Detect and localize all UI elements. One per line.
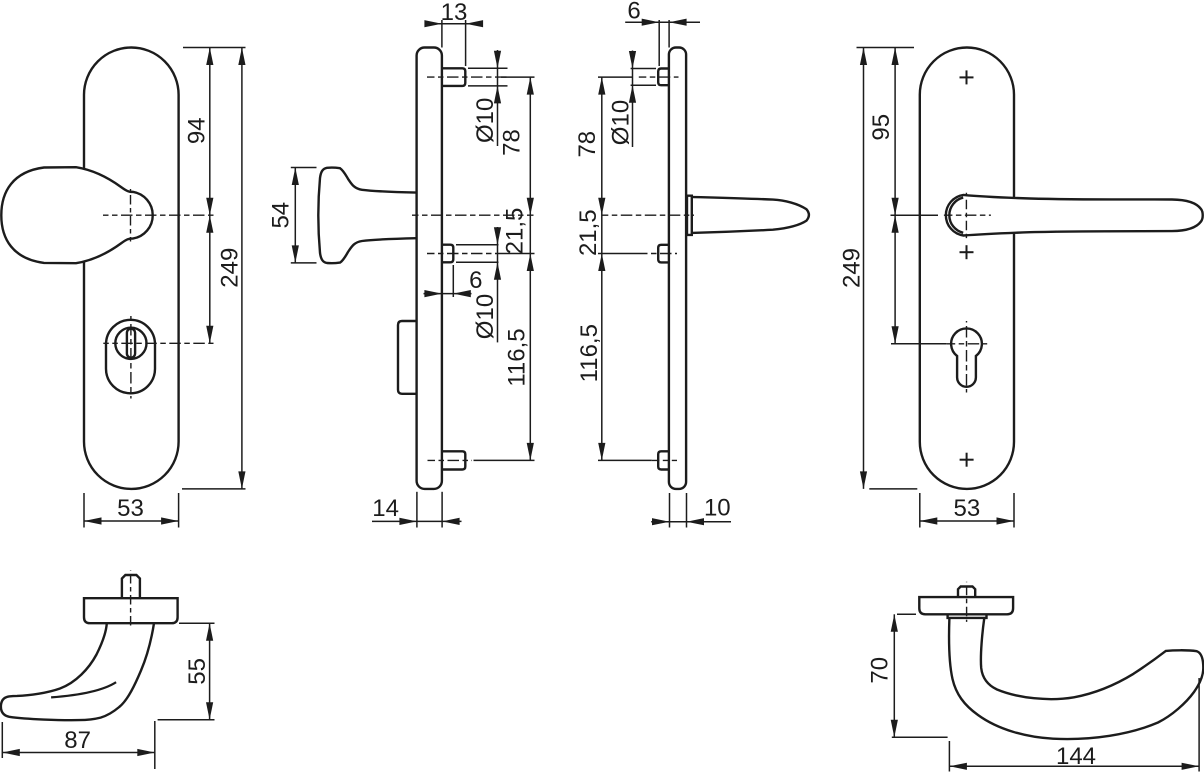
dimension 6 extension lines [442, 265, 453, 300]
middle post centerline [640, 253, 677, 255]
extension line bottom [182, 488, 246, 490]
extension line bottom [869, 488, 917, 490]
dimension 116,5 label [504, 328, 531, 386]
svg-text:10: 10 [704, 495, 731, 522]
svg-text:Ø10: Ø10 [472, 98, 499, 143]
dimension dia10 lower label [472, 294, 499, 339]
dimension 13 line [426, 23, 482, 25]
svg-text:13: 13 [441, 0, 468, 26]
extension line 78 top [501, 76, 535, 78]
svg-text:Ø10: Ø10 [472, 294, 499, 339]
dimension 10 arrows [652, 518, 704, 525]
dimension column 78 / 21,5 / 116,5 line [529, 77, 531, 460]
dimension 10 line [651, 521, 731, 523]
dimension 116,5 label [576, 324, 603, 382]
svg-text:21,5: 21,5 [575, 209, 602, 256]
svg-text:95: 95 [868, 114, 895, 141]
dimension 53 label [954, 495, 981, 522]
svg-text:116,5: 116,5 [504, 328, 531, 386]
dimension dia10 lower extension lines [456, 245, 499, 263]
top screw post 13mm [442, 68, 465, 86]
dimension 70 line [893, 614, 895, 737]
middle post extension to dim column [598, 253, 640, 255]
dimension dia10 line with underline tail [632, 51, 634, 148]
security rosette oval hole [106, 320, 155, 394]
euro profile cylinder hole [951, 328, 982, 386]
dimension 54 arrows [292, 168, 299, 263]
knob horn body [1, 623, 154, 720]
plate outline (interior side) [669, 48, 686, 489]
dimension 249 line [241, 48, 243, 489]
dimension column 78 / 21,5 / 116,5 line [601, 77, 603, 460]
dimension 70 label [867, 657, 894, 684]
cylinder core circle [115, 328, 146, 359]
svg-text:78: 78 [574, 131, 601, 158]
cylinder housing box [398, 321, 417, 394]
dimension dia10 top extension lines [468, 68, 508, 86]
dimension 14 label [372, 495, 399, 522]
svg-text:21,5: 21,5 [502, 208, 529, 255]
handle centerline horizontal [944, 214, 991, 216]
dimension 249 label [216, 248, 243, 288]
dimension knob-to-cylinder line [209, 215, 211, 343]
dimension 53 line [84, 520, 179, 522]
dimension 144 label [1056, 743, 1096, 770]
knob centerline vertical [130, 189, 132, 242]
dimension 249 line [863, 48, 865, 489]
dimension 13 extension lines [442, 20, 466, 66]
dimension dia10 top line with underline tail [497, 50, 499, 146]
dimension 70 arrows [891, 614, 898, 737]
svg-text:94: 94 [183, 117, 210, 144]
dimension 6 label [469, 267, 482, 294]
dimension 87 line [2, 752, 155, 754]
svg-text:249: 249 [839, 248, 866, 288]
dimension 55 line [209, 623, 211, 720]
dimension 53 line [920, 520, 1014, 522]
middle screw post 6mm [442, 245, 453, 263]
bottom post extension to dim column [474, 459, 535, 461]
dimension handle-to-cylinder line [894, 215, 896, 344]
dimension 95 arrows [892, 48, 899, 216]
dimension 53 label [117, 495, 144, 522]
dimension 6 line [625, 21, 700, 23]
dimension handle-to-cylinder arrows [892, 215, 899, 344]
dimension column arrows [527, 77, 534, 460]
dimension 13 label [441, 0, 468, 26]
euro hole centerline horizontal [947, 343, 988, 345]
dimension 54 extension lines [291, 168, 317, 263]
extension line handle center [891, 214, 939, 216]
extension line top [857, 47, 915, 49]
svg-text:53: 53 [954, 495, 981, 522]
knob spindle centerline [130, 570, 132, 629]
dimension 95 line [894, 48, 896, 216]
knob spindle [122, 575, 140, 598]
middle screw post [658, 245, 669, 263]
top post centerline [639, 76, 679, 78]
dimension dia10 lower arrows [494, 227, 501, 280]
dimension 87 arrows [2, 749, 155, 756]
svg-text:78: 78 [499, 129, 526, 156]
dimension 55 label [184, 658, 211, 685]
extension line cylinder center [891, 343, 947, 345]
dimension 55 arrows [206, 623, 213, 720]
dimension 94 label [183, 117, 210, 144]
plate outline (interior front) [920, 48, 1014, 489]
dimension 144 arrows [949, 763, 1199, 770]
knob (front view) [1, 167, 152, 263]
dimension dia10 top arrows [494, 51, 501, 104]
dimension 54 line [294, 168, 296, 263]
dimension 10 extension lines [670, 493, 687, 528]
extension line top [183, 47, 246, 49]
svg-text:53: 53 [117, 495, 144, 522]
dimension 87 label [64, 727, 91, 754]
dimension 78 label [499, 129, 526, 156]
svg-text:70: 70 [867, 657, 894, 684]
bottom screw post [658, 451, 669, 469]
euro hole centerline vertical [966, 321, 968, 393]
dimension dia10 extension lines [631, 69, 656, 86]
dimension dia10 lower line with underline tail [497, 227, 499, 342]
cylinder centerline horizontal [103, 342, 213, 344]
dimension 95 label [868, 114, 895, 141]
lever rose plate [919, 597, 1013, 614]
svg-text:6: 6 [469, 267, 482, 294]
dimension 10 label [704, 495, 731, 522]
svg-text:6: 6 [627, 0, 640, 25]
screw cross bottom [960, 453, 974, 467]
svg-text:116,5: 116,5 [576, 324, 603, 382]
dimension 6 extension lines [659, 20, 669, 66]
dimension 94 line [209, 48, 211, 216]
dimension 249 arrows [238, 48, 245, 489]
dimension 14 extension lines [417, 492, 442, 528]
plate outline (exterior front) [84, 48, 179, 489]
bottom post extension to dim column [598, 459, 652, 461]
dimension column arrows [598, 77, 605, 460]
dimension 55 extension lines [158, 623, 215, 720]
dimension 6 label [627, 0, 640, 25]
dimension 6 arrows [642, 19, 687, 26]
dimension 53 arrows [920, 517, 1014, 524]
plate outline (exterior side) [417, 48, 442, 489]
keyway slot [127, 329, 135, 358]
dimension 94 arrows [206, 48, 213, 216]
dimension 13 arrows [424, 20, 483, 27]
dimension 249 arrows [860, 48, 867, 489]
lever neck inner arc [949, 198, 963, 233]
svg-text:249: 249 [216, 248, 243, 288]
dimension 144 line [949, 765, 1199, 767]
lever collar [687, 196, 692, 235]
bottom post centerline [428, 459, 473, 461]
top post centerline [427, 76, 507, 78]
dimension 14 arrows [399, 518, 459, 525]
dimension 249 label [839, 248, 866, 288]
dimension dia10 top label [472, 98, 499, 143]
svg-text:55: 55 [184, 658, 211, 685]
dimension 78 label [574, 131, 601, 158]
lever collar step [948, 614, 987, 618]
knob centerline [412, 214, 534, 216]
dimension 144 extension lines [949, 678, 1199, 772]
extension line 21.5 bottom [498, 253, 535, 255]
knob horn inner crease [51, 682, 116, 697]
lever grip profile [692, 197, 809, 233]
cylinder centerline vertical [130, 316, 132, 399]
dimension 54 label [268, 202, 295, 229]
dimension 70 extension lines [892, 614, 948, 737]
lever handle outline [946, 195, 1203, 236]
dimension dia10 label [608, 100, 635, 145]
screw cross top [960, 70, 974, 84]
svg-text:Ø10: Ø10 [608, 100, 635, 145]
svg-text:144: 144 [1056, 743, 1096, 770]
bottom screw post [442, 451, 465, 469]
dimension 6 arrows [424, 290, 470, 297]
svg-text:54: 54 [268, 202, 295, 229]
dimension 53 extension lines [84, 493, 179, 528]
svg-text:87: 87 [64, 727, 91, 754]
dimension 14 line [372, 520, 462, 522]
dimension 21,5 label [502, 208, 529, 255]
svg-text:14: 14 [372, 495, 399, 522]
dimension 53 extension lines [920, 493, 1014, 528]
dimension 87 extension lines [2, 721, 155, 769]
knob profile (side view) [318, 168, 416, 264]
middle post centerline [427, 253, 498, 255]
knob rose plate [84, 598, 178, 623]
lever spindle centerline [966, 582, 968, 622]
dimension 6 line [424, 293, 472, 295]
bottom post centerline [652, 459, 677, 461]
dimension 21,5 label [575, 209, 602, 256]
top post extension to dim column [598, 76, 633, 78]
knob centerline horizontal [103, 214, 214, 216]
lever spindle [958, 587, 975, 598]
handle centerline vertical [965, 193, 967, 238]
dimension dia10 arrows [629, 51, 636, 103]
dimension 53 arrows [84, 517, 179, 524]
lever arm (top view) [949, 618, 1203, 739]
handle centerline [602, 214, 694, 216]
screw cross middle [960, 245, 974, 259]
top screw post [658, 69, 669, 86]
dimension knob-to-cylinder arrows [206, 215, 213, 343]
